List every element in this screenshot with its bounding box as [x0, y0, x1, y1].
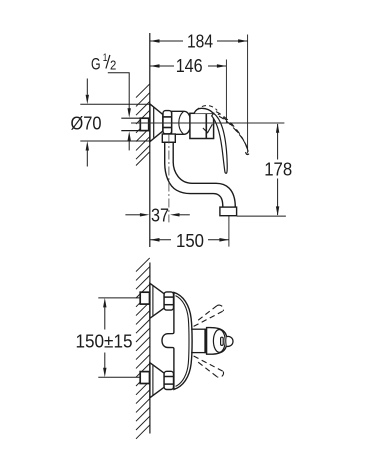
dimension 150 (top view) [150, 216, 229, 247]
knob end button [227, 336, 233, 346]
handle base box [190, 113, 214, 138]
wall hatching (top view) [136, 84, 150, 166]
faucet body cylinder [172, 111, 191, 134]
escutcheon cone (side view) [150, 104, 163, 142]
body plate (plan view) [162, 292, 192, 389]
top union: nut [164, 292, 173, 310]
dimension 184 [150, 35, 248, 154]
dashed rotation arc (top) [196, 106, 217, 111]
spout axis centerline [168, 135, 170, 223]
dashed handle swivel positions (plan) [194, 305, 224, 377]
dashed lever raised position [216, 112, 248, 152]
svg-text:178: 178 [264, 160, 292, 180]
bottom union: square fitting [140, 372, 149, 384]
lever handle grip [194, 108, 213, 113]
dimension 178 [237, 215, 286, 217]
svg-text:G: G [91, 56, 101, 74]
wall hatching (bottom view) [136, 258, 150, 439]
main axis centerline (top view) [131, 122, 284, 124]
spout S-pipe [165, 142, 236, 207]
neck to knob (plan) [191, 328, 207, 330]
svg-text:184: 184 [187, 32, 213, 52]
small solid check mark under dashed lever [203, 124, 213, 133]
dimension 146 [150, 60, 226, 124]
G1/2 leader line [108, 73, 129, 109]
svg-text:1: 1 [103, 52, 108, 64]
svg-text:37: 37 [151, 205, 169, 225]
top union: escutcheon cone [150, 283, 164, 318]
svg-text:Ø70: Ø70 [71, 114, 102, 134]
dimension lines O70 [80, 79, 149, 167]
supply square fitting [140, 118, 148, 130]
knob (handle from above) [207, 328, 227, 355]
svg-text:2: 2 [110, 59, 116, 73]
union nut (side view) [163, 111, 172, 134]
lever handle blade [212, 113, 228, 173]
wall face line (top view) [149, 33, 151, 247]
svg-text:150±15: 150±15 [76, 332, 133, 352]
svg-text:150: 150 [176, 231, 204, 251]
dimension 150±15 [98, 297, 140, 299]
svg-text:146: 146 [176, 56, 203, 76]
bottom union: escutcheon cone [150, 363, 164, 398]
dimension 37 [125, 214, 140, 216]
spout collar [162, 134, 175, 142]
wall face line (bottom view) [149, 263, 151, 434]
supply nipple lines [121, 117, 140, 119]
bottom union: nut [164, 371, 173, 389]
top union: square fitting [140, 292, 149, 304]
aerator [220, 207, 237, 216]
